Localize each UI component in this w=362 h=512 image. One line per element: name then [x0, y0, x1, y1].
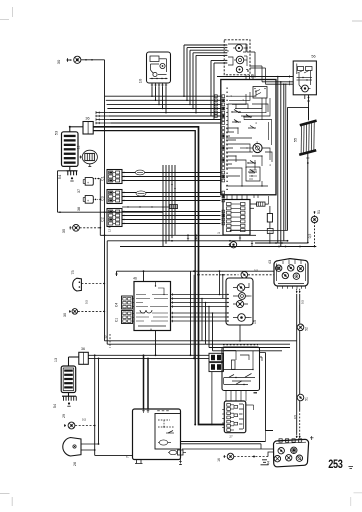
connector 44 ground mark — [261, 460, 269, 465]
connector 43 body — [274, 259, 308, 286]
wire 57 right out — [246, 404, 254, 406]
wire feed h1 to unit15 — [187, 47, 224, 49]
wire v265 corner — [265, 431, 267, 442]
main switch block inner sw3 — [244, 115, 252, 118]
wire h246 — [120, 246, 316, 248]
wire fusebox top to 36 — [70, 126, 83, 128]
fuse stack 13b body — [61, 366, 75, 393]
svg-text:10: 10 — [138, 78, 143, 83]
wire h449 — [182, 448, 273, 450]
wire dashed h272 b — [248, 274, 274, 276]
lamp cluster inner — [233, 288, 239, 318]
wire bus v3 — [171, 165, 173, 238]
wire h230 — [231, 230, 288, 232]
wire link v202 — [201, 299, 203, 342]
unit 46 inner — [140, 310, 152, 313]
inline connector stub down — [180, 455, 182, 464]
connector 44 top pins — [279, 439, 282, 442]
wire window55 bottom down — [307, 153, 309, 243]
wire dashed h272 — [198, 274, 239, 276]
wire pin4 box10 down — [162, 87, 164, 109]
connector C4 — [122, 296, 133, 309]
unit 46 body — [134, 282, 171, 331]
connector 43 pin1 — [276, 265, 282, 271]
wire feed lower pair to unit15 — [210, 61, 212, 117]
switch unit 10 internals — [150, 56, 159, 62]
page crop mark top-right — [352, 20, 362, 22]
wire v277 down — [277, 77, 279, 244]
svg-text:54: 54 — [53, 404, 57, 408]
lamp 30b lead — [69, 310, 71, 312]
wire pin2 box10 down — [155, 87, 157, 100]
wire h207 dots — [122, 206, 170, 208]
wire 58 vert link — [211, 372, 213, 425]
wire h358 — [88, 357, 209, 359]
wire trunk h2 — [107, 103, 221, 105]
connector marks mid — [239, 235, 241, 241]
svg-text:12: 12 — [104, 335, 108, 339]
switch unit 58 conn b — [209, 363, 223, 372]
lamp 30 lead mark — [67, 59, 71, 61]
svg-text:29: 29 — [62, 414, 66, 418]
wire lamp35 dashes — [80, 227, 101, 229]
lamp cluster lamp2 — [239, 293, 246, 300]
svg-text:26: 26 — [73, 462, 77, 466]
wire link v212 — [212, 313, 214, 351]
relay box 56 body — [293, 61, 316, 95]
svg-text:27: 27 — [229, 435, 233, 439]
main switch block left pins — [222, 95, 225, 98]
svg-text:36: 36 — [81, 347, 85, 351]
xxx connector 2 — [257, 202, 266, 206]
wire bus v4 — [174, 165, 176, 235]
wire feed h to relay56 b — [262, 81, 293, 83]
trunk left extensions — [96, 112, 108, 114]
wiper unit 7 inner box — [155, 414, 181, 450]
wire bus v0 — [162, 165, 164, 247]
wire C2 row1 — [122, 215, 221, 217]
connector C3 — [107, 190, 122, 204]
wire lamp30 to corner — [81, 59, 105, 61]
wire riser v4 to unit15 — [195, 55, 197, 112]
wire lamp30b dashes — [78, 310, 105, 312]
switch unit 58 conn a — [209, 353, 223, 361]
wiper unit 7 top pins — [143, 409, 145, 413]
page crop mark bottom-left vertical — [11, 497, 13, 506]
wiper unit 7 feet — [135, 460, 143, 464]
wire unit46 out4 — [171, 312, 227, 314]
wire v283 down — [283, 84, 285, 241]
svg-text:75: 75 — [71, 270, 75, 274]
wire link down a — [190, 271, 192, 355]
wire trunk h1 — [106, 99, 221, 101]
page crop mark top-left horizontal — [0, 19, 9, 21]
lamp 29 lead — [64, 425, 66, 427]
switch unit 10 body — [147, 52, 171, 83]
fuse stack 13b bottom pin — [68, 393, 70, 397]
connector 44 body — [274, 439, 309, 466]
diode oval a — [135, 170, 144, 175]
switch unit 58 pins bottom — [225, 391, 227, 395]
wire C1 row0 — [122, 172, 221, 174]
wire riser to block46 — [143, 271, 145, 281]
wire pin1 box10 down — [151, 87, 153, 96]
main switch block inner wires2 — [226, 138, 253, 152]
wire unit15 out right — [247, 51, 255, 53]
lamp cluster pins right — [250, 295, 252, 297]
relay panel pins — [227, 203, 232, 206]
alternator 11 body — [82, 150, 97, 164]
wire feed ticks at relay56 — [289, 75, 291, 77]
wire unit46 out0 — [171, 294, 227, 296]
wire link v209 — [208, 307, 210, 348]
bottom right tick — [349, 467, 354, 469]
resistor 10A — [267, 214, 272, 223]
wire trunk h3 — [107, 108, 220, 110]
wire vertical B — [98, 358, 100, 444]
wire left edge loop — [57, 171, 59, 212]
wire v280 down — [280, 82, 282, 247]
heated window 55 bottom bar — [299, 150, 316, 155]
svg-text:C2: C2 — [101, 217, 105, 222]
connector C2 — [107, 209, 122, 227]
inline connector bottom — [169, 450, 177, 454]
svg-text:1: 1 — [217, 232, 221, 234]
wire feed h4 to unit15 — [196, 54, 224, 56]
wire h243 — [255, 242, 308, 244]
fuse box 36 body — [83, 122, 93, 135]
fuse stack 13 bottom pin — [69, 166, 71, 170]
wire h340 — [105, 340, 297, 342]
wire bus v1 — [165, 165, 167, 244]
svg-text:35: 35 — [61, 228, 66, 233]
lamp unit 15 lamp C — [236, 66, 242, 72]
lamp cluster lamp4 — [238, 314, 246, 322]
svg-text:C4: C4 — [115, 303, 119, 307]
wire C2 row2 — [122, 219, 221, 221]
wires C4 to unit46 — [133, 298, 135, 300]
fuse stack 13 bars — [64, 135, 76, 137]
wire unit46 out5 — [171, 316, 227, 318]
wire pin5 box10 down — [165, 87, 167, 113]
alternator 11 pins — [80, 156, 83, 158]
lamp unit 15 body — [224, 40, 250, 75]
wire trunk h5 — [109, 115, 221, 117]
wire v100 collector — [99, 179, 101, 236]
page crop mark bottom-right vertical — [350, 497, 352, 506]
main switch block inner sw4 — [248, 161, 256, 164]
xxx connector — [170, 205, 178, 209]
cig lighter 16a — [230, 242, 236, 248]
connector C1 — [107, 170, 122, 184]
svg-text:43: 43 — [268, 260, 272, 264]
wire 13b to 36b — [69, 356, 79, 358]
wire feed h to relay56 c — [266, 83, 294, 85]
wire h347 — [209, 347, 290, 349]
lamp 51 r — [297, 394, 304, 401]
svg-text:16: 16 — [217, 458, 221, 462]
wiper unit 7 body — [133, 409, 181, 460]
lamp 30 — [74, 56, 81, 63]
svg-text:0,5: 0,5 — [293, 415, 297, 420]
relay block 57 body — [224, 401, 246, 433]
wire unit46 out2 — [171, 302, 227, 304]
wire pin3 box10 down — [158, 87, 160, 104]
lamp 29 — [68, 422, 75, 429]
wire from xxx2 — [265, 203, 269, 205]
wire h355 — [88, 354, 209, 356]
lamp cluster 15L body — [226, 278, 253, 325]
wire horn75 dashes — [81, 283, 104, 285]
wire lamp16 dashes — [234, 456, 268, 458]
svg-text:C1: C1 — [115, 318, 119, 322]
main switch block inner wires3 — [226, 168, 268, 186]
switch unit 10 pins — [151, 83, 153, 87]
relay panel body — [223, 200, 250, 236]
connector 44 pin1 — [278, 448, 284, 454]
lamp 51u — [311, 216, 318, 223]
svg-text:7: 7 — [126, 456, 130, 458]
lamp 16 lead — [224, 456, 226, 458]
trunk pin squares at block — [215, 95, 218, 98]
connector 44 pin4 — [286, 455, 292, 461]
wire unit46 out3 — [171, 306, 227, 308]
main switch block extra wiring — [226, 126, 256, 165]
fuse stack 13 body — [62, 132, 79, 167]
wires C1b to unit46 — [133, 312, 135, 314]
main switch block inner relay top — [253, 87, 267, 99]
wire v299 long — [299, 294, 301, 324]
wire v299 dashes — [299, 410, 301, 434]
lamp 30b — [72, 309, 78, 315]
wire C1 row1 — [122, 176, 221, 178]
horn 26 body — [63, 438, 81, 457]
main switch block cascade — [226, 90, 272, 120]
wire cluster bottom down — [239, 325, 241, 341]
svg-text:0,5: 0,5 — [82, 418, 87, 422]
wire C3 row0 — [122, 192, 221, 194]
ground comb 54b — [62, 395, 76, 397]
junction ticks row — [187, 237, 189, 239]
wire unit46 bottom down — [155, 331, 157, 356]
page crop mark bottom-left horizontal — [0, 493, 10, 495]
wire dashed v314 — [314, 212, 316, 247]
main switch block inner sw1 — [232, 110, 240, 113]
wire h441 — [181, 441, 266, 443]
svg-text:0,5: 0,5 — [85, 300, 89, 305]
svg-text:53: 53 — [54, 130, 59, 135]
wire feed h0 to unit15 — [184, 44, 224, 46]
connector 44 pin3 — [274, 456, 280, 462]
lamp unit 15 inner wiring — [228, 44, 246, 52]
lamp 35 lead — [70, 227, 72, 229]
connector 43 pin verts — [283, 260, 301, 265]
wire C3 row2 — [122, 200, 221, 202]
wire link v219 — [219, 271, 221, 294]
main switch block inner box — [246, 167, 260, 181]
wire h212 — [58, 211, 164, 213]
switch unit 58 inner — [224, 347, 253, 372]
wire relay56 branch corner — [304, 95, 306, 99]
lamp unit 15 lamp B — [236, 56, 244, 64]
wire v287 down — [287, 107, 289, 230]
connector 44 pin5 — [296, 455, 302, 461]
wire thick drop a — [143, 355, 145, 409]
relay block 57 side — [239, 404, 244, 429]
main switch block inner sw2 — [232, 120, 241, 123]
svg-text:0,5: 0,5 — [308, 234, 312, 239]
wire link v205 — [205, 303, 207, 345]
relay block 57 pins — [227, 404, 231, 407]
trunk junction dots — [151, 95, 153, 97]
svg-text:51: 51 — [305, 397, 309, 401]
wire relay56 down to window — [308, 95, 310, 120]
heated window 55 top bar — [300, 121, 317, 126]
wire trunk h6 — [110, 119, 221, 121]
wire 58 out right2 — [260, 356, 263, 358]
wire v104 lower — [104, 212, 106, 341]
connector 43 inner frame — [276, 264, 278, 282]
svg-text:46: 46 — [133, 277, 137, 281]
main switch block body — [221, 80, 276, 195]
wire vertical A — [94, 355, 96, 455]
right edge mark 44 — [310, 436, 314, 440]
svg-text:12 M: 12 M — [108, 225, 112, 232]
switch unit 58 top dashes — [223, 344, 258, 346]
connector 43 pin3 — [297, 265, 303, 271]
lamp unit 15 lamp A — [236, 45, 243, 52]
connector 44 top rail — [276, 442, 306, 443]
wire thick drop b — [147, 358, 149, 409]
heated window 55 grid — [300, 126, 302, 154]
lamp unit 15 pins right — [246, 44, 248, 52]
connector 43 bottom pins — [277, 286, 279, 289]
connector 43 pin5 — [293, 273, 299, 279]
lamp cluster 15L pins left — [226, 294, 229, 296]
connector C1b — [122, 311, 133, 324]
wire h350 — [213, 350, 283, 352]
svg-text:11: 11 — [77, 146, 81, 150]
relay block 57 left ticks — [222, 409, 224, 411]
wire riser v3 to unit15 — [192, 53, 194, 109]
svg-text:55: 55 — [294, 138, 298, 142]
wire v108 lower — [106, 241, 108, 344]
main switch block pin number texture — [226, 88, 228, 89]
connector 43 pin2 — [288, 265, 294, 271]
wire horn26 bot — [81, 449, 95, 451]
wire 57 top risers — [225, 394, 227, 401]
wire h455 to unit7 — [95, 454, 133, 456]
switch unit 58 body — [222, 347, 260, 391]
wire window55 top up-left — [308, 107, 310, 120]
svg-text:37: 37 — [77, 189, 81, 193]
wire C1 row2 — [122, 180, 221, 182]
wire v285 down — [285, 84, 287, 230]
svg-text:C1: C1 — [101, 176, 105, 181]
wire v296 long — [296, 294, 298, 434]
wire feed h2 to unit15 — [190, 49, 224, 51]
wire unit15 down stubs — [246, 75, 253, 80]
connector 43 pin4 — [282, 272, 288, 278]
wire h268 long — [117, 270, 275, 272]
wire v261 corner — [260, 444, 262, 449]
wire lamp16 corner — [268, 452, 273, 457]
wiper unit 7 inner — [159, 440, 167, 445]
wire h241 — [107, 240, 287, 242]
main switch block gauge — [253, 143, 262, 152]
wire h443 — [181, 443, 262, 445]
svg-text:30: 30 — [56, 59, 61, 64]
wire trunk h4 — [108, 112, 221, 114]
page crop mark bottom-right horizontal — [354, 492, 362, 494]
wire h235 — [100, 234, 256, 236]
svg-text:15: 15 — [253, 320, 257, 324]
diode oval b — [136, 191, 146, 196]
wire v299 long2 — [299, 331, 301, 395]
wire riser v2 to unit15 — [189, 50, 191, 104]
washer pump 37 body — [85, 178, 93, 186]
wire bus v2 — [168, 165, 170, 241]
svg-text:56: 56 — [311, 55, 315, 59]
wire h268 stub — [116, 271, 118, 276]
fuse stack 13b bars — [64, 370, 73, 372]
lamp 52 r — [297, 324, 304, 331]
svg-text:51: 51 — [317, 210, 321, 214]
washer pump 38 body — [85, 196, 93, 204]
ground comb 54 — [67, 170, 78, 172]
unit46 bottom dashes — [109, 334, 111, 348]
wire block bottom stubs — [226, 195, 228, 200]
wire v299 long3 — [299, 401, 301, 410]
fuse box 36b body — [79, 352, 89, 364]
wire vertical x104 from lamp30 — [104, 60, 106, 212]
wire 58 out right — [260, 352, 266, 354]
svg-text:36: 36 — [85, 117, 89, 121]
svg-text:52: 52 — [305, 327, 309, 331]
wire pump38 out — [93, 198, 100, 200]
lamp 35 — [73, 224, 80, 231]
svg-text:253: 253 — [328, 457, 343, 471]
wire battery feed companion — [93, 131, 195, 425]
wire C2 row0 — [122, 211, 221, 213]
wire h235 left corner — [100, 234, 105, 236]
lamp cluster lamp3 — [236, 300, 243, 307]
wire panel out a — [250, 203, 257, 205]
wire feed h to relay56 a — [217, 76, 293, 78]
connector 44 pin2 — [291, 447, 297, 453]
wire C2 row3 — [122, 223, 221, 225]
wire dashed below 43 b — [299, 289, 301, 294]
wire riser v0 to unit15 — [183, 45, 185, 96]
svg-text:38: 38 — [77, 207, 81, 211]
lamp 16 — [227, 453, 234, 460]
fuse stack 13b top pin — [68, 361, 70, 366]
wire horn26 top — [81, 443, 99, 445]
main switch block inner sw5 — [248, 170, 257, 173]
page crop mark top-left vertical — [12, 7, 14, 17]
wire riser v1 to unit15 — [186, 48, 188, 101]
wire panel out b — [250, 207, 254, 209]
wire thick battery feed — [93, 127, 224, 425]
svg-text:0,5: 0,5 — [301, 300, 305, 305]
lamp cluster lamp1 — [237, 284, 245, 292]
svg-text:0,5: 0,5 — [254, 269, 259, 273]
fuse stack 13 top pin — [69, 127, 71, 132]
wire link down b — [193, 275, 195, 359]
horn 75 body — [73, 278, 82, 291]
svg-text:30: 30 — [63, 313, 67, 317]
wire pump37 out — [93, 178, 100, 180]
